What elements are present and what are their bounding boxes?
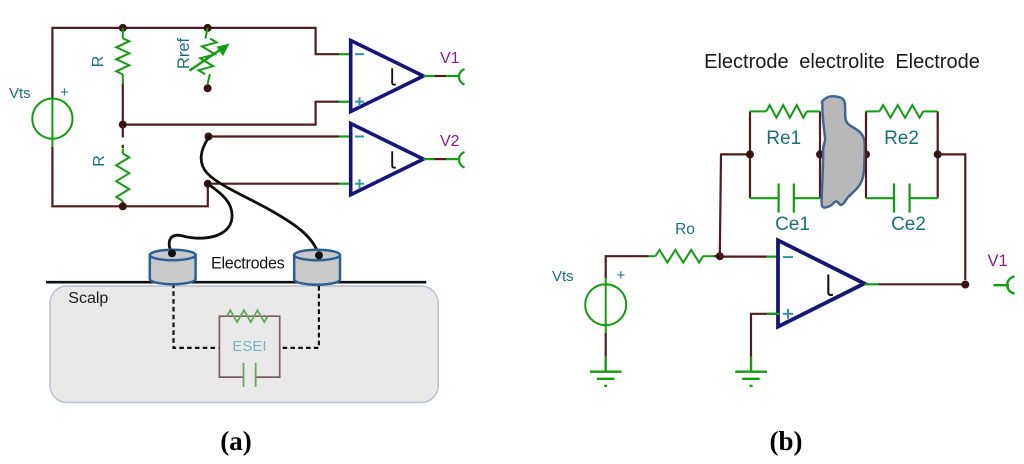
node U2 minus wire end: [205, 133, 213, 141]
wire small dash above R2: [122, 145, 124, 148]
svg-text:Ce2: Ce2: [891, 214, 926, 235]
node middle junction: [119, 121, 127, 129]
resistor Re1: [750, 105, 820, 118]
potentiometer Rref: [198, 28, 217, 84]
resistor Re2: [866, 105, 938, 118]
wire node to U3 minus: [720, 256, 767, 258]
node blob left: [816, 150, 824, 158]
capacitor Ce1: [750, 184, 820, 213]
wire middle rail to U1 non-inverting input: [123, 102, 339, 125]
resistor in ESEI box: [227, 310, 268, 322]
node U2 plus wire end: [204, 180, 212, 188]
wire Ro to node: [714, 255, 723, 257]
Rref bottom terminal dot: [204, 84, 212, 92]
svg-text:Vts: Vts: [552, 268, 574, 285]
svg-text:Ce1: Ce1: [775, 214, 810, 235]
electrolyte blob: [822, 96, 865, 207]
wire Vts (b) to ground: [605, 333, 607, 357]
ESEI box: [219, 316, 279, 377]
svg-text:Electrode electrolite Electrod: Electrode electrolite Electrode: [704, 51, 980, 73]
wire R1 bottom to middle node: [122, 84, 124, 125]
node main junction (b): [716, 252, 724, 260]
node blob right: [862, 150, 870, 158]
wire U3 plus input to ground: [751, 314, 780, 357]
wire top rail from Vts to op-amp U1 inverting input: [52, 28, 339, 99]
wire stub below middle node: [122, 125, 124, 138]
wire Re2 right to output node: [938, 154, 966, 280]
hidden wire across electrolyte: [820, 153, 866, 155]
right electrode: [294, 250, 340, 285]
wire U2 minus input: [209, 135, 340, 137]
terminal V1 connector (panel a): [459, 69, 465, 85]
op-amp U3: [778, 240, 864, 326]
flexible lead wire to left electrode: [169, 184, 232, 253]
wire Vts top to Ro: [606, 256, 649, 278]
terminal V1 connector (panel b): [994, 284, 1010, 286]
Re1/Ce1 network frame: [750, 111, 820, 198]
svg-text:(a): (a): [220, 426, 251, 456]
right electrode wire dot: [315, 251, 323, 259]
svg-text:V1: V1: [440, 50, 460, 67]
svg-text:ESEI: ESEI: [232, 338, 266, 355]
left electrode wire dot: [168, 249, 176, 257]
voltage source Vts (panel b): [585, 278, 626, 333]
resistor Ro: [649, 250, 714, 263]
capacitor in ESEI box: [244, 363, 256, 387]
svg-text:Scalp: Scalp: [68, 290, 108, 307]
wire U2 plus input: [208, 183, 339, 185]
svg-text:Electrodes: Electrodes: [211, 255, 285, 273]
wire bottom rail: [52, 147, 207, 206]
flexible lead wire to right electrode: [201, 137, 318, 254]
scalp body: [50, 286, 438, 402]
resistor R (upper): [116, 28, 129, 84]
Rref arrow: [190, 44, 230, 71]
svg-text:Vts: Vts: [9, 85, 31, 102]
wire node up to RC network: [720, 154, 750, 256]
svg-text:V2: V2: [440, 133, 460, 150]
svg-text:Rref: Rref: [175, 37, 193, 69]
svg-text:Re2: Re2: [884, 128, 919, 149]
op-amp U2: [351, 124, 424, 195]
svg-text:(b): (b): [770, 426, 803, 456]
node bottom of R2: [119, 202, 127, 210]
dashed lead right electrode to ESEI: [280, 286, 319, 348]
node top of Rref: [204, 24, 212, 32]
wire green lead into U1 minus: [339, 53, 352, 55]
terminal V2 connector: [459, 152, 465, 168]
op-amp U1: [351, 41, 424, 112]
wire U3 output: [864, 283, 878, 285]
node output junction: [961, 281, 969, 289]
svg-text:+: +: [60, 84, 69, 101]
node top of R1: [119, 24, 127, 32]
left electrode: [150, 250, 196, 284]
svg-text:R: R: [91, 155, 108, 167]
ground (op-amp U3): [735, 357, 767, 386]
svg-text:+: +: [617, 267, 626, 284]
svg-text:R: R: [90, 56, 107, 68]
wire U1 output: [423, 75, 434, 77]
node Re1 left: [746, 150, 754, 158]
svg-text:V1: V1: [988, 252, 1008, 270]
svg-text:Ro: Ro: [675, 221, 695, 238]
ground (Vts b): [590, 357, 622, 386]
wire green lead into U1 plus: [339, 101, 352, 103]
voltage source Vts (panel a): [32, 99, 72, 148]
node Re2 right: [934, 150, 942, 158]
dashed lead left electrode to ESEI: [174, 284, 219, 348]
resistor R (lower): [116, 149, 129, 207]
scalp surface line: [46, 281, 426, 284]
svg-text:Re1: Re1: [766, 128, 801, 149]
capacitor Ce2: [866, 184, 938, 213]
Re2/Ce2 network frame: [866, 111, 938, 198]
wire U2 output: [423, 158, 434, 160]
